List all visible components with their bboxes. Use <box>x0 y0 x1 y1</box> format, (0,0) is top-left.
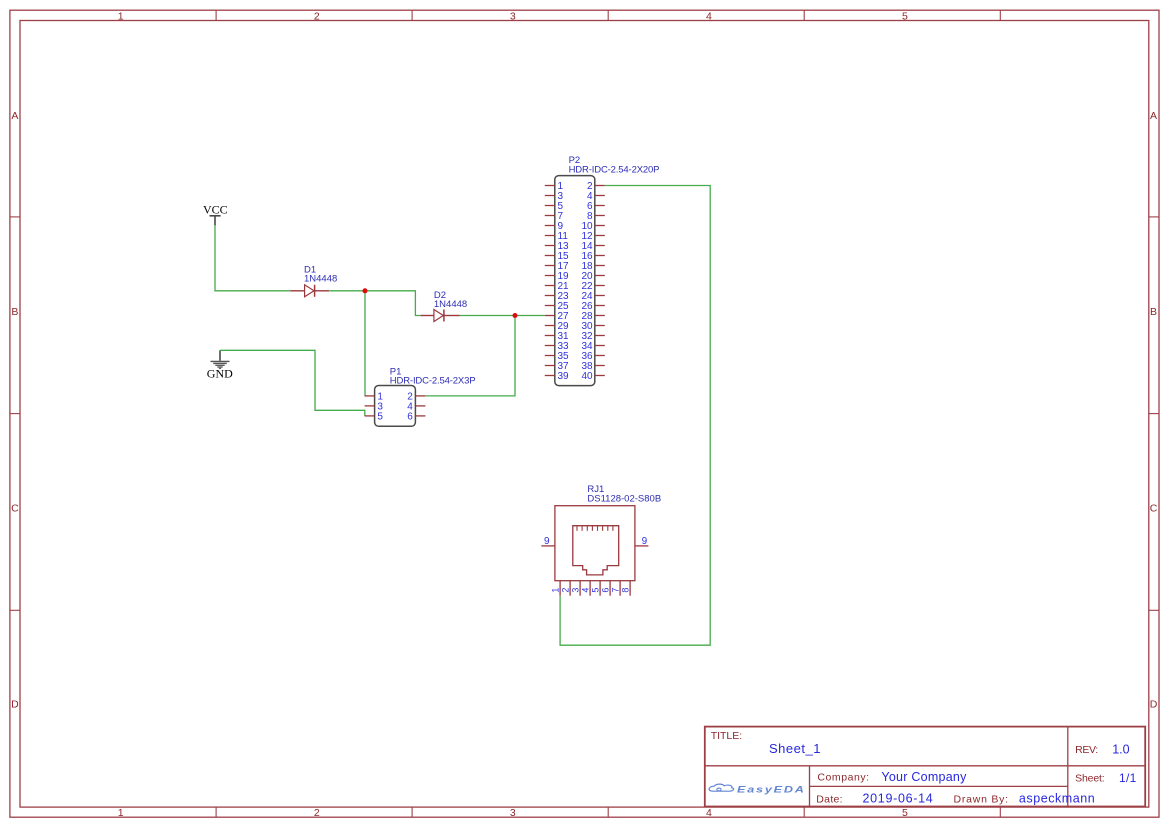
RJ1 pin 4 lead <box>589 581 591 596</box>
svg-text:2: 2 <box>314 807 320 819</box>
P2 pin 9 lead <box>545 225 555 227</box>
svg-text:40: 40 <box>581 371 593 382</box>
svg-text:Date:: Date: <box>816 793 843 805</box>
P2 pin 35 lead <box>545 355 555 357</box>
P1 pin 6 lead <box>415 415 425 417</box>
P2 pin 6 lead <box>595 205 605 207</box>
RJ1 pin 9 lead right <box>635 545 649 547</box>
junction node at D1 output <box>363 288 368 293</box>
P2 pin 39 lead <box>545 375 555 377</box>
RJ1 pin 2 lead <box>569 581 571 596</box>
frame row letters right <box>1150 110 1158 711</box>
frame column numbers bottom <box>118 807 908 819</box>
svg-text:Sheet_1: Sheet_1 <box>769 741 821 756</box>
title block outer border <box>705 727 1145 807</box>
svg-text:5: 5 <box>590 588 600 593</box>
P2 pin 11 lead <box>545 235 555 237</box>
wire junction1 down to P1 pin 1 <box>364 291 366 396</box>
svg-text:Sheet:: Sheet: <box>1075 773 1104 785</box>
P2 pin 19 lead <box>545 275 555 277</box>
RJ1 pin 6 lead <box>609 581 611 596</box>
P2 pin 14 lead <box>595 245 605 247</box>
frame ruler ticks left/right <box>10 217 1159 610</box>
P2 pin 20 lead <box>595 275 605 277</box>
RJ1 pin 9 lead left <box>541 545 555 547</box>
svg-text:GND: GND <box>207 366 233 380</box>
P2 pin 7 lead <box>545 215 555 217</box>
P2 pin 24 lead <box>595 295 605 297</box>
P2 pin 2 lead <box>595 185 605 187</box>
P1 pin 3 lead <box>365 405 375 407</box>
svg-text:Your Company: Your Company <box>881 770 967 784</box>
P1 pin 2 lead <box>415 395 425 397</box>
P2 pin 38 lead <box>595 365 605 367</box>
connector P2 body <box>555 176 595 386</box>
svg-text:1: 1 <box>118 807 124 819</box>
svg-text:TITLE:: TITLE: <box>711 730 743 742</box>
svg-text:EasyEDA: EasyEDA <box>737 785 806 795</box>
svg-text:9: 9 <box>544 536 550 547</box>
svg-text:C: C <box>1150 502 1158 514</box>
RJ1 pin 5 lead <box>599 581 601 596</box>
wire D1 to junction <box>329 290 365 292</box>
P2 pin 1 lead <box>545 185 555 187</box>
wire D2 to junction 2 <box>460 315 516 317</box>
svg-text:REV:: REV: <box>1075 744 1098 756</box>
title block divider REV column <box>1067 727 1069 807</box>
svg-text:5: 5 <box>377 412 383 423</box>
wire junction2 down to P1 pin 2 <box>425 316 515 396</box>
P2 pin 29 lead <box>545 325 555 327</box>
diode D1 <box>290 285 329 297</box>
frame row letters left <box>11 110 19 711</box>
P2 pin 5 lead <box>545 205 555 207</box>
P2 pin 15 lead <box>545 255 555 257</box>
P2 pin 28 lead <box>595 315 605 317</box>
svg-text:Drawn By:: Drawn By: <box>954 793 1009 805</box>
P1 pin 5 lead <box>365 415 375 417</box>
svg-text:4: 4 <box>580 588 590 593</box>
svg-text:HDR-IDC-2.54-2X20P: HDR-IDC-2.54-2X20P <box>569 165 660 176</box>
RJ1 pin 3 lead <box>579 581 581 596</box>
diode D2 <box>421 310 460 322</box>
P2 pin 37 lead <box>545 365 555 367</box>
RJ1 pin 7 lead <box>619 581 621 596</box>
ground symbol GND <box>211 350 230 368</box>
svg-text:7: 7 <box>610 588 620 593</box>
frame ruler ticks top/bottom <box>216 10 1000 817</box>
P2 pin 18 lead <box>595 265 605 267</box>
wire P2 pin 2 to RJ1 pin 1 <box>560 186 710 646</box>
power flag VCC <box>203 202 228 225</box>
svg-text:4: 4 <box>706 10 712 22</box>
P2 pin 21 lead <box>545 285 555 287</box>
P2 pin 25 lead <box>545 305 555 307</box>
P2 pin 33 lead <box>545 345 555 347</box>
P1 pin 4 lead <box>415 405 425 407</box>
svg-text:VCC: VCC <box>203 202 228 216</box>
P2 pin 27 lead <box>545 315 555 317</box>
P2 pin 40 lead <box>595 375 605 377</box>
svg-text:D: D <box>11 699 19 711</box>
P2 pin 31 lead <box>545 335 555 337</box>
P2 pin 36 lead <box>595 355 605 357</box>
RJ1 pin 1 lead <box>559 581 561 596</box>
wire junction to D2 <box>365 291 421 316</box>
svg-text:B: B <box>1150 306 1157 318</box>
svg-text:9: 9 <box>642 536 648 547</box>
svg-text:5: 5 <box>902 807 908 819</box>
svg-text:6: 6 <box>407 412 413 423</box>
title block divider under TITLE row <box>705 765 1145 767</box>
svg-text:1: 1 <box>118 10 124 22</box>
svg-text:39: 39 <box>558 371 570 382</box>
svg-text:DS1128-02-S80B: DS1128-02-S80B <box>587 494 661 505</box>
EasyEDA logo cloud <box>709 784 734 791</box>
RJ1 jack outline <box>573 526 619 575</box>
svg-text:aspeckmann: aspeckmann <box>1019 791 1095 805</box>
wire GND to P1 pin 5 <box>220 350 365 416</box>
svg-text:1/1: 1/1 <box>1119 771 1137 785</box>
svg-text:1N4448: 1N4448 <box>434 299 467 310</box>
P1 pin 1 lead <box>365 395 375 397</box>
svg-text:2: 2 <box>560 588 570 593</box>
svg-text:2: 2 <box>314 10 320 22</box>
P2 pin 32 lead <box>595 335 605 337</box>
connector P1 body <box>375 386 416 427</box>
title block divider logo cell <box>809 766 811 807</box>
svg-text:D: D <box>1150 699 1158 711</box>
junction node at D2 output <box>513 313 518 318</box>
P2 pin 22 lead <box>595 285 605 287</box>
svg-text:6: 6 <box>600 588 610 593</box>
svg-text:A: A <box>11 110 18 122</box>
P2 pin 34 lead <box>595 345 605 347</box>
P2 pin 3 lead <box>545 195 555 197</box>
P2 pin 8 lead <box>595 215 605 217</box>
svg-text:8: 8 <box>620 588 630 593</box>
svg-text:C: C <box>11 502 19 514</box>
svg-text:4: 4 <box>706 807 712 819</box>
P2 pin 23 lead <box>545 295 555 297</box>
svg-text:5: 5 <box>902 10 908 22</box>
svg-text:1: 1 <box>550 588 560 593</box>
P2 pin 4 lead <box>595 195 605 197</box>
P2 pin 13 lead <box>545 245 555 247</box>
connector RJ1 body <box>555 506 635 581</box>
wire VCC stem <box>215 225 290 290</box>
svg-text:3: 3 <box>510 807 516 819</box>
svg-text:2019-06-14: 2019-06-14 <box>863 791 934 805</box>
svg-text:HDR-IDC-2.54-2X3P: HDR-IDC-2.54-2X3P <box>390 375 476 386</box>
svg-text:A: A <box>1150 110 1157 122</box>
wire junction2 to P2 pin 27 <box>515 315 545 317</box>
frame column numbers top <box>118 10 908 22</box>
title block divider company/date rows <box>810 785 1068 787</box>
svg-text:3: 3 <box>510 10 516 22</box>
svg-text:3: 3 <box>570 588 580 593</box>
RJ1 pin 8 lead <box>629 581 631 596</box>
P2 pin 16 lead <box>595 255 605 257</box>
P2 pin 26 lead <box>595 305 605 307</box>
svg-text:1.0: 1.0 <box>1112 742 1129 756</box>
P2 pin 12 lead <box>595 235 605 237</box>
RJ1 jack contact teeth <box>577 526 613 531</box>
svg-text:1N4448: 1N4448 <box>304 274 337 285</box>
P2 pin 10 lead <box>595 225 605 227</box>
P2 pin 17 lead <box>545 265 555 267</box>
svg-text:Company:: Company: <box>817 772 869 784</box>
P2 pin 30 lead <box>595 325 605 327</box>
svg-text:B: B <box>11 306 18 318</box>
